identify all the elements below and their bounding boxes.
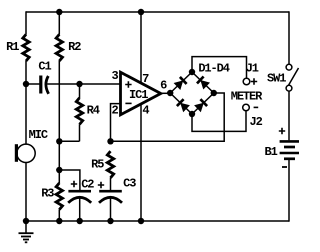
junction bottom rail at MIC xyxy=(23,218,29,224)
junction bottom rail at C2 xyxy=(77,218,83,224)
wire C1 right lead to IC1 pin 3 xyxy=(47,83,120,85)
capacitor C2 flat plate xyxy=(68,190,91,193)
svg-text:D1-D4: D1-D4 xyxy=(198,62,229,76)
diode D bottom-left cathode bar xyxy=(177,99,184,106)
svg-text:J1: J1 xyxy=(246,61,259,75)
wire IC1 output to bridge left corner xyxy=(161,92,171,94)
svg-text:SW1: SW1 xyxy=(267,72,286,86)
svg-text:C2: C2 xyxy=(81,178,94,192)
junction R2/R3/R4 node xyxy=(56,138,62,144)
wire C1 node to MIC top xyxy=(25,84,27,144)
wire bridge top corner to J1 xyxy=(192,57,247,79)
svg-text:R4: R4 xyxy=(87,104,100,118)
wire battery minus to bottom rail xyxy=(288,160,290,222)
junction bottom rail at R3 xyxy=(56,218,62,224)
capacitor C3 flat plate xyxy=(99,190,122,193)
junction pin2/R5/feedback node xyxy=(107,138,113,144)
polarity plus J1 xyxy=(251,78,257,84)
switch SW1 top contact xyxy=(286,64,292,70)
jack J1 terminal circle xyxy=(243,78,250,85)
wire IC1 pin 4 to bottom rail xyxy=(140,104,142,221)
wire MIC bottom to ground rail xyxy=(25,162,27,221)
junction bottom rail at pin 4 xyxy=(138,218,144,224)
wire R4 bottom lead xyxy=(79,124,81,141)
capacitor C2 curved plate xyxy=(68,197,91,203)
resistor R3 xyxy=(56,183,62,210)
capacitor C3 curved plate xyxy=(99,197,122,203)
wire SW1 bottom contact to battery plus plate xyxy=(288,91,290,140)
junction R3/C2 node xyxy=(56,167,62,173)
battery B1 short plate 2 xyxy=(284,157,295,160)
battery B1 short plate 1 xyxy=(284,146,295,149)
wire top supply rail xyxy=(26,11,289,13)
svg-text:4: 4 xyxy=(142,104,149,118)
resistor R1 xyxy=(23,34,29,61)
diode bridge diamond outline xyxy=(170,72,214,114)
svg-text:C3: C3 xyxy=(123,177,136,191)
wire R3 top lead xyxy=(58,170,60,183)
wire node y141 to node y170 xyxy=(58,141,60,170)
diode D top-right triangle xyxy=(200,80,210,90)
junction top rail at pin 7 xyxy=(138,9,144,15)
diode D top-left triangle xyxy=(174,80,184,90)
polarity plus C3 xyxy=(98,182,104,188)
wire R2 bottom lead crossing C1 line to node at y141 xyxy=(58,61,60,142)
capacitor C1 flat plate xyxy=(39,76,42,94)
wire R2 top lead xyxy=(58,12,60,35)
switch SW1 lever xyxy=(289,68,299,85)
polarity plus C2 xyxy=(71,181,77,187)
diode D top-left cathode bar xyxy=(180,77,187,84)
op-amp minus input sign xyxy=(125,102,131,104)
wire bottom ground rail xyxy=(26,220,289,222)
op-amp U IC1 triangle xyxy=(121,72,161,115)
wire bridge bottom corner to J2 xyxy=(192,111,246,131)
battery B1 long plate 2 xyxy=(280,152,299,155)
switch SW1 bottom contact xyxy=(286,85,292,91)
wire C2 top jog from node y170 xyxy=(59,170,80,190)
svg-text:C1: C1 xyxy=(38,60,51,74)
svg-text:6: 6 xyxy=(160,78,167,92)
junction top rail at R2 xyxy=(56,9,62,15)
wire C1 left lead xyxy=(26,83,40,85)
wire feedback line pin2 to bridge right corner xyxy=(111,93,225,141)
wire R1 bottom lead to C1 node xyxy=(25,61,27,84)
svg-text:3: 3 xyxy=(112,69,119,83)
capacitor C1 curved plate xyxy=(46,76,49,94)
svg-text:R3: R3 xyxy=(41,186,54,200)
svg-text:R1: R1 xyxy=(6,40,19,54)
svg-text:J2: J2 xyxy=(249,115,262,129)
svg-text:R5: R5 xyxy=(91,158,104,172)
wire R3 bottom lead xyxy=(58,209,60,221)
junction bridge left corner node xyxy=(167,90,173,96)
op-amp plus input sign xyxy=(125,81,131,87)
wire R5 bottom lead to C3 plate xyxy=(110,178,112,191)
junction bridge bottom corner node xyxy=(189,111,195,117)
microphone MIC element bar xyxy=(15,144,18,162)
junction R4 top at pin3 line xyxy=(76,81,82,87)
svg-text:R2: R2 xyxy=(68,40,81,54)
wire R4 top lead xyxy=(79,84,81,98)
diode D bottom-left triangle xyxy=(180,103,190,113)
wire C3 bottom lead to rail xyxy=(110,198,112,221)
microphone MIC circle xyxy=(17,144,35,162)
jack J2 terminal circle xyxy=(243,104,250,111)
polarity plus battery xyxy=(279,128,285,134)
wire R4 jog to R2/R3 node xyxy=(59,140,79,142)
diode D bottom-right triangle xyxy=(194,103,204,113)
junction bridge right corner node xyxy=(211,90,217,96)
junction bottom rail at C3 xyxy=(107,218,113,224)
svg-text:IC1: IC1 xyxy=(129,88,148,102)
wire R1 top lead xyxy=(25,11,27,34)
diode D top-right cathode bar xyxy=(197,77,204,84)
ground symbol xyxy=(19,221,34,242)
polarity minus battery xyxy=(282,166,287,168)
svg-text:METER: METER xyxy=(231,89,263,103)
polarity minus J2 xyxy=(254,106,259,108)
wire top rail to SW1 top contact xyxy=(288,11,290,64)
resistor R5 xyxy=(107,151,113,178)
battery B1 long plate 1 xyxy=(280,140,299,143)
svg-text:2: 2 xyxy=(112,104,119,118)
wire IC1 pin 2 stub xyxy=(111,104,121,142)
svg-text:MIC: MIC xyxy=(29,128,48,142)
junction bridge top corner node xyxy=(189,69,195,75)
wire C2 bottom lead to rail xyxy=(79,198,81,221)
svg-text:B1: B1 xyxy=(264,145,277,159)
resistor R2 xyxy=(56,34,62,61)
wire IC1 pin 7 to top rail xyxy=(140,12,142,84)
junction C1 node at R1 branch xyxy=(23,81,29,87)
diode D bottom-right cathode bar xyxy=(200,99,207,106)
resistor R4 xyxy=(76,98,82,125)
svg-text:7: 7 xyxy=(142,72,149,86)
